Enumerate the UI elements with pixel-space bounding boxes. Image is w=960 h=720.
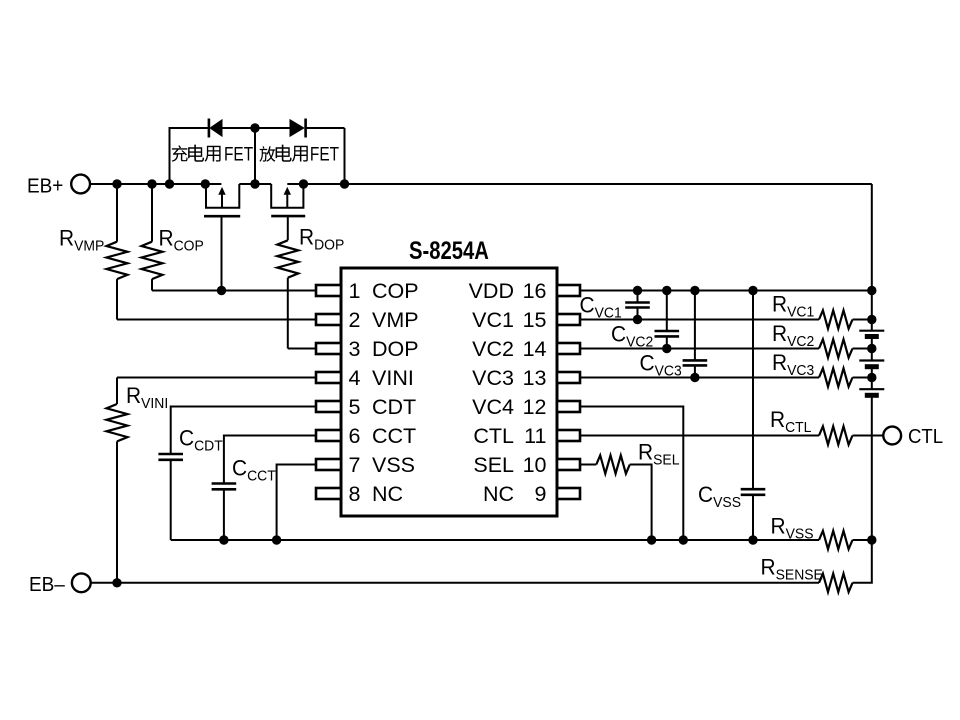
wire RVC1 to battery <box>853 319 872 321</box>
svg-text:FET: FET <box>310 143 339 165</box>
junction CVC2 on VC2 line <box>662 344 671 353</box>
wire VC3 pin13 line <box>580 377 819 379</box>
wire EB+ top rail <box>90 183 872 185</box>
svg-text:EB–: EB– <box>29 573 65 596</box>
battery cell BT1 <box>859 331 884 337</box>
junction diode branch center <box>250 123 259 132</box>
svg-text:RSENSE: RSENSE <box>761 554 824 584</box>
junction CVC1 on VDD line <box>633 286 642 295</box>
junction VC4 on bus <box>679 535 688 544</box>
wire VC4 pin12 to bus <box>580 407 683 541</box>
svg-text:1: 1 <box>349 279 361 303</box>
junction top rail center node <box>250 179 259 188</box>
node B3 <box>867 373 876 382</box>
pin numbers and names left <box>349 279 419 506</box>
resistor RCTL <box>819 426 853 444</box>
svg-text:RVC3: RVC3 <box>772 349 814 379</box>
wire diode branch frame <box>170 128 345 184</box>
svg-text:RVC1: RVC1 <box>772 291 814 321</box>
junction CVC1 on VC1 line <box>633 315 642 324</box>
junction VDD at battery rail <box>867 286 876 295</box>
svg-text:CTL: CTL <box>908 426 943 448</box>
pins 1-8 left pin boxes <box>316 285 341 499</box>
wire VC1 pin15 line <box>580 319 819 321</box>
svg-text:CCT: CCT <box>372 424 416 448</box>
svg-text:CDT: CDT <box>372 395 416 419</box>
svg-text:CCCT: CCCT <box>232 455 276 485</box>
junction VSS pin7 on bus <box>272 535 281 544</box>
junction CVSS on VDD line <box>748 286 757 295</box>
wire RCTL to CTL terminal <box>853 435 884 437</box>
junction top rail RCOP <box>147 179 156 188</box>
wire CDT pin5 line <box>171 407 316 455</box>
junction CVC2 on VDD line <box>662 286 671 295</box>
capacitor CVC1 <box>625 291 650 320</box>
op-amp U1 S-8254A body <box>341 268 557 516</box>
junction RVSS RSENSE rail <box>867 535 876 544</box>
junction top rail Q2 source <box>299 179 308 188</box>
svg-text:VSS: VSS <box>372 453 415 477</box>
wire RVC2 to battery <box>853 348 872 350</box>
svg-text:CVC1: CVC1 <box>580 292 622 322</box>
wire VSS bus <box>171 539 872 541</box>
terminal EB- <box>29 573 91 596</box>
svg-text:13: 13 <box>523 366 547 390</box>
svg-text:VMP: VMP <box>372 308 419 332</box>
node B1 battery top <box>867 315 876 324</box>
wire CCDT to bus <box>170 460 172 540</box>
wire VMP pin2 line <box>117 319 316 321</box>
wire VC2 pin14 line <box>580 348 819 350</box>
wire battery right rail <box>871 184 873 540</box>
resistor RDOP (Q2 gate) <box>277 216 298 348</box>
svg-text:RVINI: RVINI <box>126 382 168 412</box>
svg-text:3: 3 <box>349 337 361 361</box>
wire CCT pin6 line <box>224 436 316 484</box>
svg-text:12: 12 <box>523 395 547 419</box>
svg-text:EB+: EB+ <box>27 175 63 198</box>
svg-text:10: 10 <box>523 453 547 477</box>
diode D2 (discharge FET body diode) <box>290 119 306 138</box>
svg-text:VC4: VC4 <box>472 395 514 419</box>
svg-text:VDD: VDD <box>469 279 514 303</box>
resistor RVC2 <box>819 339 853 357</box>
terminal EB+ <box>27 175 90 198</box>
svg-text:CVC2: CVC2 <box>611 321 653 351</box>
resistor RSENSE <box>819 574 853 592</box>
svg-text:VC1: VC1 <box>472 308 514 332</box>
svg-text:5: 5 <box>349 395 361 419</box>
svg-text:14: 14 <box>523 337 547 361</box>
battery cell BT2 <box>859 361 884 367</box>
junction CVC3 on VDD line <box>690 286 699 295</box>
capacitor CCDT <box>158 454 183 460</box>
wire Q1 gate to COP <box>221 216 223 290</box>
wire DOP pin3 line <box>288 348 316 350</box>
junction top rail RVMP <box>112 179 121 188</box>
svg-text:2: 2 <box>349 308 361 332</box>
svg-text:RVC2: RVC2 <box>772 320 814 350</box>
svg-text:COP: COP <box>372 279 419 303</box>
svg-text:RVMP: RVMP <box>59 225 104 255</box>
capacitor CVC2 <box>655 291 680 349</box>
terminal CTL <box>883 426 943 448</box>
svg-text:FET: FET <box>224 143 253 165</box>
resistor RVMP <box>107 184 128 320</box>
resistor RSEL <box>596 455 630 473</box>
wire RSEL to bus <box>630 465 652 541</box>
svg-text:SEL: SEL <box>473 453 514 477</box>
wire CCCT to bus <box>223 489 225 540</box>
junction top rail Q1 source <box>201 179 210 188</box>
svg-text:7: 7 <box>349 453 361 477</box>
svg-text:6: 6 <box>349 424 361 448</box>
transistor Q2 discharge FET <box>271 184 305 216</box>
svg-text:RDOP: RDOP <box>299 224 344 254</box>
svg-text:8: 8 <box>349 482 361 506</box>
wire COP pin1 line <box>152 290 316 292</box>
wire SEL pin10 stub <box>580 464 596 466</box>
svg-text:CVC3: CVC3 <box>640 350 682 380</box>
resistor RVINI <box>107 378 128 583</box>
svg-text:VC2: VC2 <box>472 337 514 361</box>
junction RSEL on bus <box>647 535 656 544</box>
wire EB- bottom line <box>91 540 872 583</box>
svg-text:4: 4 <box>349 366 361 390</box>
svg-text:9: 9 <box>535 482 547 506</box>
battery cell BT3 <box>859 389 884 395</box>
svg-text:RVSS: RVSS <box>771 513 814 543</box>
svg-text:RCOP: RCOP <box>159 225 204 255</box>
svg-text:CCDT: CCDT <box>179 425 223 455</box>
capacitor CCCT <box>212 484 237 490</box>
capacitor CVC3 <box>683 291 708 378</box>
wire RVC3 to battery <box>853 377 872 379</box>
capacitor CVSS <box>741 291 766 541</box>
label charge FET (CJK) <box>172 143 254 165</box>
svg-text:VINI: VINI <box>372 366 414 390</box>
junction Q1 gate on COP line <box>217 286 226 295</box>
junction CVC3 on VC3 line <box>690 373 699 382</box>
junction RVINI on EB- line <box>112 578 121 587</box>
label discharge FET (CJK) <box>259 143 339 165</box>
svg-text:CTL: CTL <box>473 424 514 448</box>
svg-text:RCTL: RCTL <box>770 406 811 436</box>
svg-text:CVSS: CVSS <box>698 481 741 511</box>
resistor RVC1 <box>819 310 853 328</box>
wire VDD pin16 line <box>580 290 872 292</box>
resistor RVSS <box>819 531 853 549</box>
diode D1 (charge FET body diode) <box>209 119 223 138</box>
junction CVSS on bus <box>748 535 757 544</box>
node B2 <box>867 344 876 353</box>
svg-text:VC3: VC3 <box>472 366 514 390</box>
transistor Q1 charge FET <box>204 184 240 216</box>
pins 9-16 right pin boxes <box>557 285 580 499</box>
junction top rail diode frame left <box>165 179 174 188</box>
pin numbers and names right <box>469 279 547 506</box>
wire VINI pin4 line <box>117 377 316 379</box>
wire CTL pin11 line <box>580 435 819 437</box>
svg-text:DOP: DOP <box>372 337 419 361</box>
svg-text:11: 11 <box>524 424 546 448</box>
svg-text:NC: NC <box>372 482 403 506</box>
svg-text:NC: NC <box>483 482 514 506</box>
resistor RVC3 <box>819 368 853 386</box>
svg-text:16: 16 <box>523 279 547 303</box>
svg-text:S-8254A: S-8254A <box>409 237 489 264</box>
junction top rail diode frame right <box>340 179 349 188</box>
resistor RCOP <box>142 184 163 291</box>
svg-text:15: 15 <box>523 308 547 332</box>
junction CCCT on bus <box>219 535 228 544</box>
wire VSS pin7 to bus <box>277 465 316 541</box>
